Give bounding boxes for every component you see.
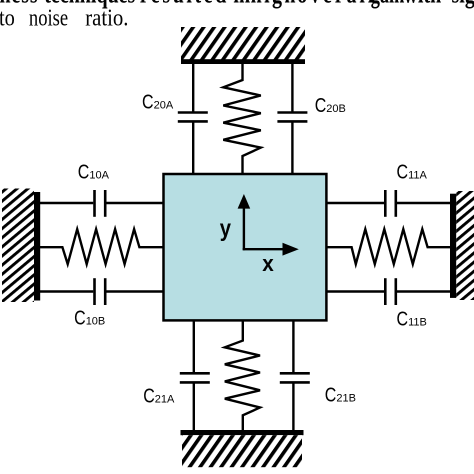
svg-text:20A: 20A	[154, 100, 174, 112]
capacitor C20B plates	[277, 111, 307, 114]
svg-text:y: y	[220, 215, 231, 242]
proof mass (central square)	[164, 174, 327, 320]
spring right	[326, 229, 451, 264]
top anchor hatch	[181, 27, 305, 60]
bottom anchor bar	[181, 430, 304, 435]
wire top-right vertical upper	[291, 62, 293, 112]
svg-text:high: high	[251, 0, 298, 9]
label C10A	[78, 160, 110, 183]
bottom anchor hatch	[182, 435, 302, 467]
capacitor C20A plates	[178, 111, 208, 114]
top anchor bar	[181, 59, 305, 64]
wire left-top horizontal	[39, 202, 93, 204]
spring bottom	[225, 320, 260, 431]
svg-text:C: C	[78, 160, 90, 183]
wire	[397, 202, 451, 204]
svg-text:to: to	[0, 4, 15, 31]
svg-text:10A: 10A	[89, 170, 109, 182]
capacitor C11A plates	[384, 190, 387, 217]
x axis arrow	[243, 248, 284, 250]
label C21B	[325, 382, 356, 405]
svg-text:C: C	[143, 384, 155, 407]
svg-text:C: C	[142, 90, 154, 113]
right anchor bar	[450, 194, 456, 298]
svg-text:10B: 10B	[86, 316, 106, 328]
capacitor C10A plates	[93, 190, 96, 217]
caption text line 1 (cropped at top)	[0, 0, 474, 9]
label C20B	[315, 93, 346, 116]
spring left	[39, 229, 164, 264]
svg-text:21B: 21B	[336, 392, 356, 404]
svg-text:21A: 21A	[155, 394, 175, 406]
left anchor hatch	[2, 189, 34, 303]
wire	[106, 202, 164, 204]
capacitor C21A plates	[180, 372, 210, 375]
capacitor C10B plates	[93, 278, 96, 305]
wire bottom-left vertical lower	[193, 383, 195, 431]
wire	[106, 290, 164, 292]
label C11A	[397, 160, 428, 183]
y axis arrow	[243, 207, 245, 250]
svg-text:ratio.: ratio.	[85, 4, 128, 31]
wire right-top horizontal	[326, 202, 384, 204]
svg-text:sign: sign	[452, 0, 474, 9]
wire left-bottom horizontal	[39, 290, 93, 292]
caption text line 2	[0, 4, 128, 31]
svg-text:11A: 11A	[408, 170, 427, 182]
capacitor C11B plates	[384, 278, 387, 305]
svg-text:noise: noise	[29, 4, 68, 31]
svg-text:C: C	[74, 306, 86, 329]
svg-text:11B: 11B	[408, 316, 427, 328]
wire bottom-left vertical upper	[193, 320, 195, 373]
svg-text:gain: gain	[371, 0, 405, 8]
spring top (suspension)	[223, 62, 260, 175]
capacitor C21B plates	[280, 372, 310, 375]
label C20A	[142, 90, 174, 113]
svg-text:overall: overall	[297, 0, 376, 9]
wire bottom-right vertical lower	[292, 383, 294, 431]
label C21A	[143, 384, 175, 407]
svg-text:C: C	[397, 306, 409, 329]
wire top-left vertical lower	[192, 122, 194, 175]
wire right-bottom horizontal	[326, 290, 384, 292]
svg-text:20B: 20B	[326, 103, 346, 115]
wire bottom-right vertical upper	[292, 320, 294, 373]
svg-text:with: with	[404, 0, 442, 9]
svg-text:resulted: resulted	[140, 0, 229, 9]
wire	[397, 290, 451, 292]
svg-text:x: x	[262, 250, 274, 276]
label C11B	[397, 306, 427, 329]
label C10B	[74, 306, 105, 329]
svg-text:C: C	[397, 160, 409, 183]
wire top-left vertical upper	[192, 62, 194, 112]
svg-text:in: in	[233, 0, 250, 9]
right anchor hatch	[456, 191, 474, 300]
svg-text:C: C	[325, 382, 337, 405]
wire top-right vertical lower	[291, 122, 293, 175]
svg-text:C: C	[315, 93, 327, 116]
left anchor bar	[34, 192, 40, 301]
